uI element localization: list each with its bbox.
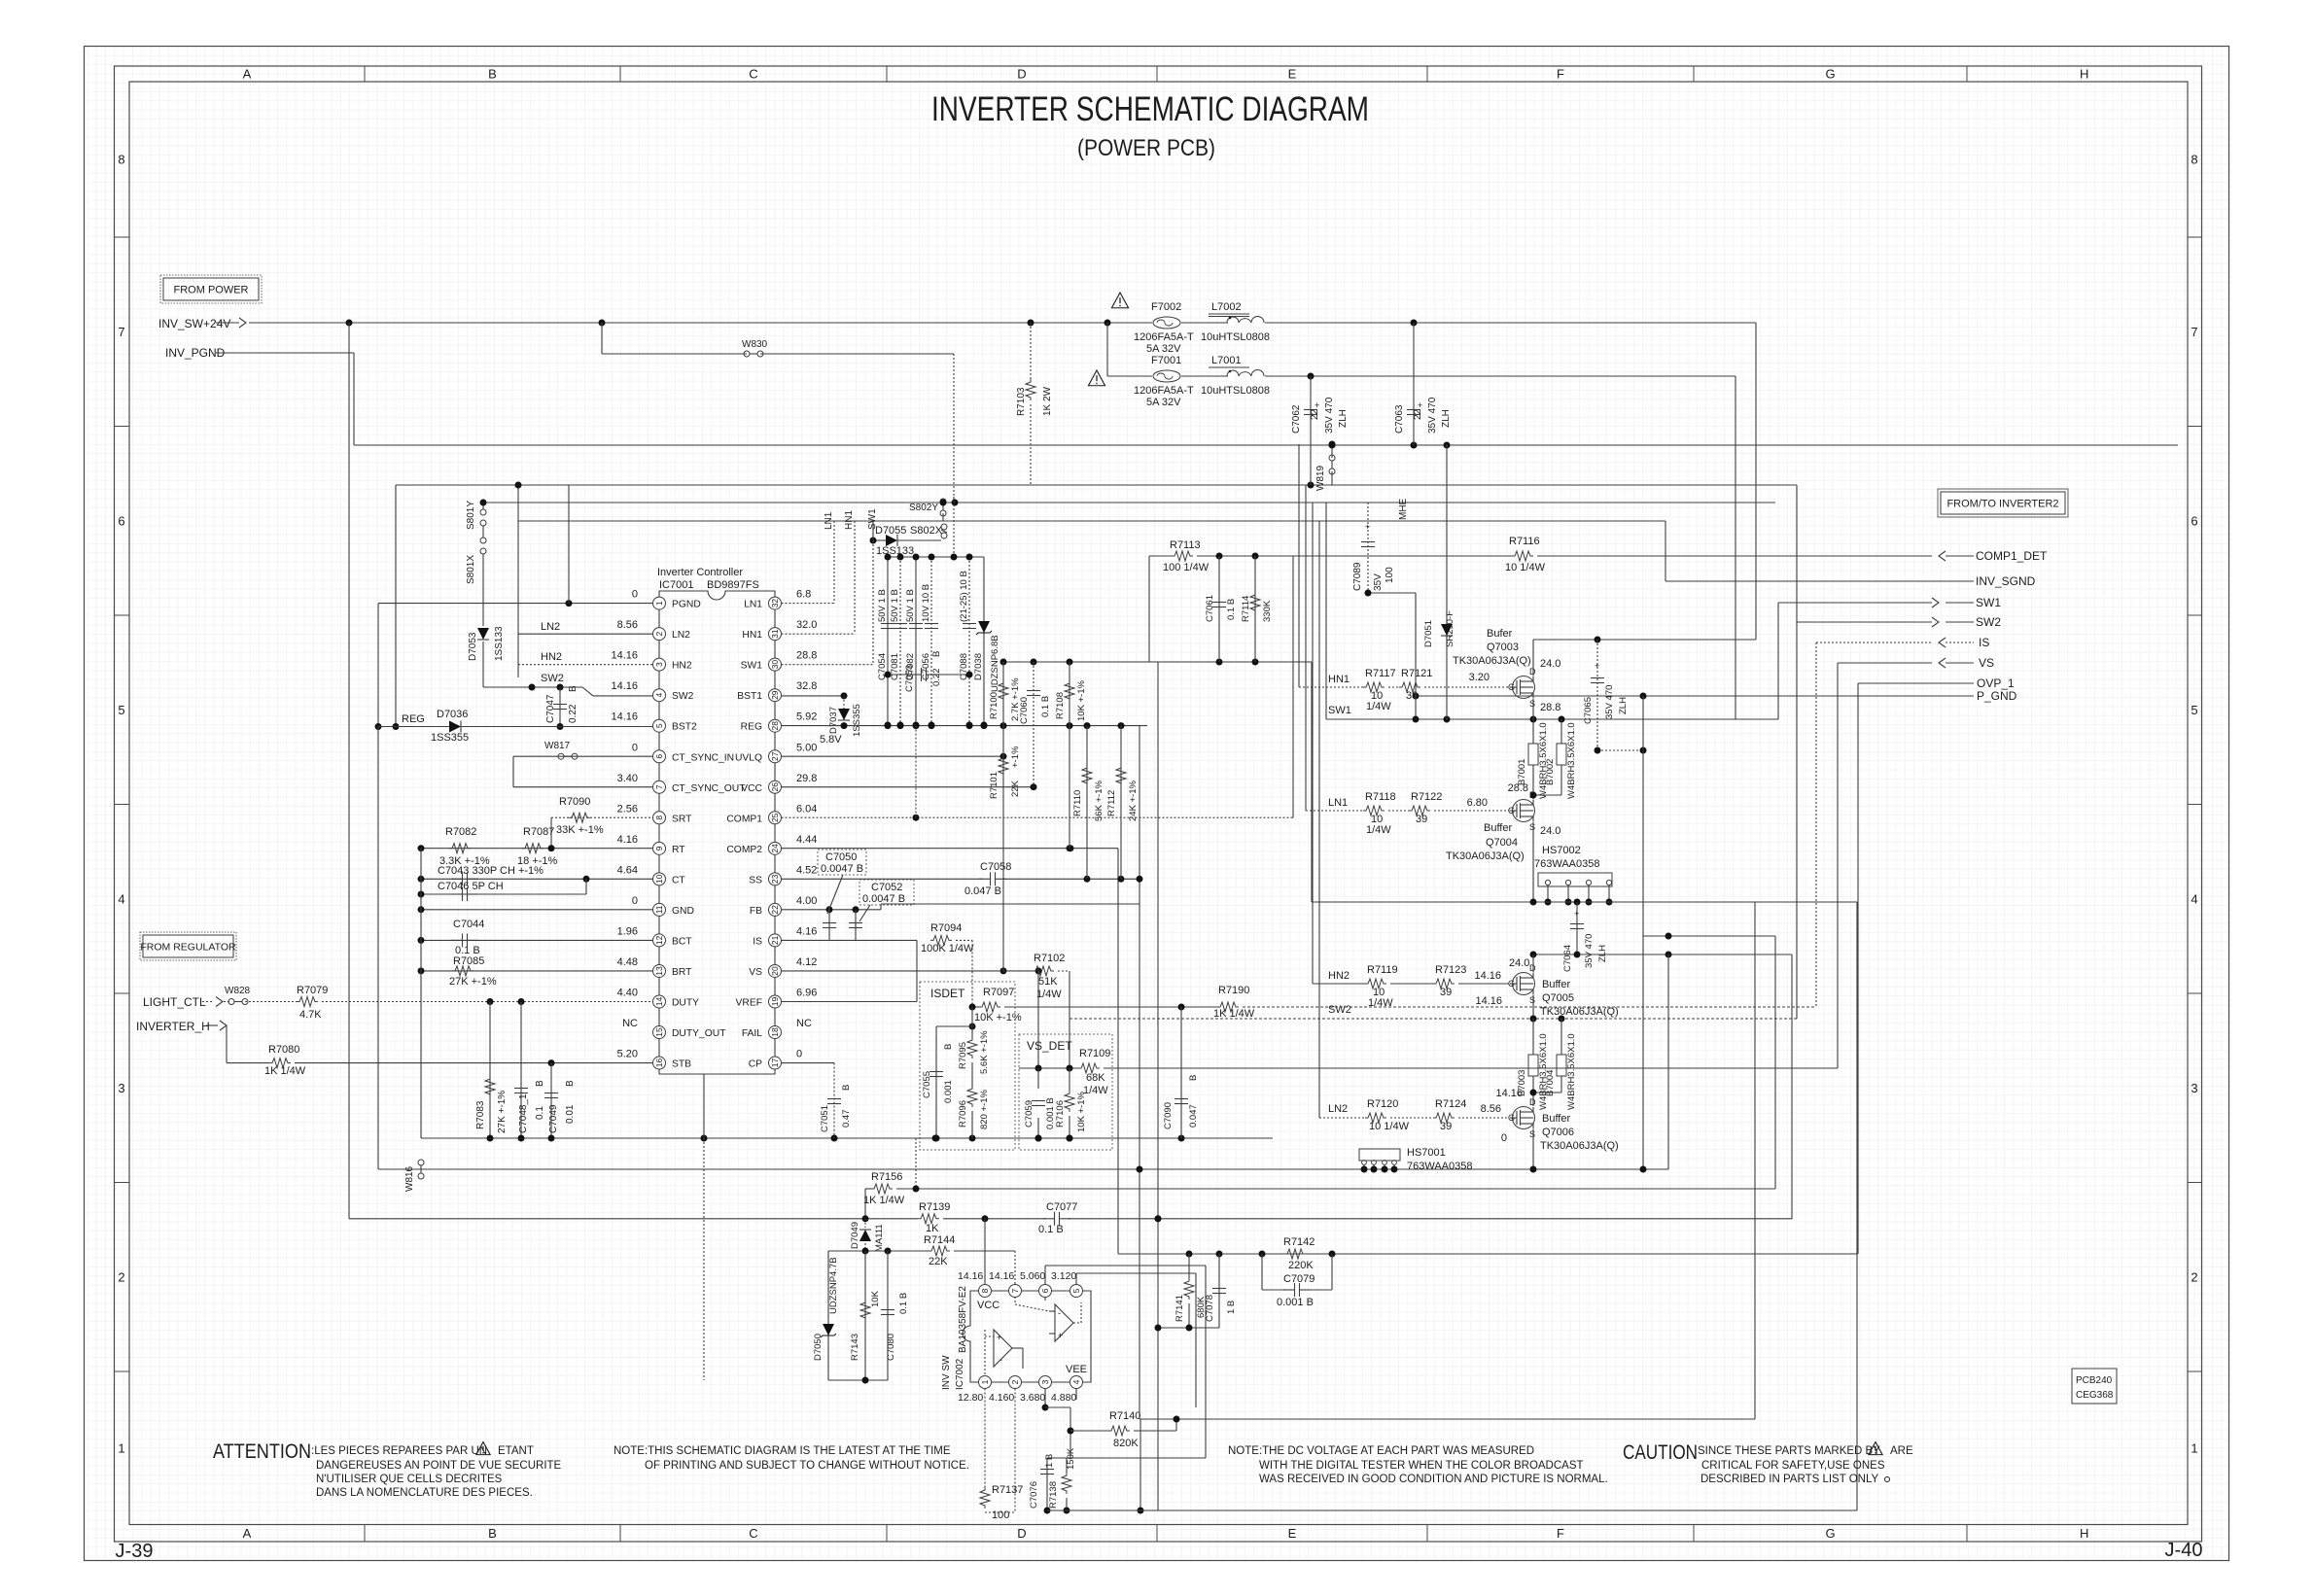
svg-text:COMP2: COMP2 (726, 845, 762, 855)
svg-text:LN1: LN1 (744, 600, 762, 610)
svg-text:3: 3 (1040, 1379, 1050, 1384)
svg-text:SINCE THESE PARTS MARKED BY: SINCE THESE PARTS MARKED BY (1698, 1445, 1880, 1457)
svg-text:14.16: 14.16 (1475, 995, 1502, 1007)
svg-text:56K +-1%: 56K +-1% (1094, 780, 1104, 821)
svg-text:39: 39 (1440, 987, 1452, 998)
svg-text:C7059: C7059 (1024, 1100, 1034, 1128)
svg-text:R7097: R7097 (983, 987, 1014, 998)
svg-text:R7096: R7096 (958, 1100, 968, 1128)
svg-text:A: A (243, 67, 252, 82)
svg-text:1.96: 1.96 (617, 925, 638, 937)
svg-text:C7062: C7062 (1291, 404, 1302, 434)
svg-text:D7049: D7049 (850, 1222, 860, 1249)
svg-text:C7065: C7065 (1583, 697, 1594, 724)
svg-text:DUTY_OUT: DUTY_OUT (672, 1028, 726, 1039)
svg-text:FAIL: FAIL (742, 1028, 762, 1039)
svg-text:TK30A06J3A(Q): TK30A06J3A(Q) (1540, 1140, 1619, 1152)
svg-text:15: 15 (654, 1027, 664, 1037)
svg-text:D7055: D7055 (875, 525, 906, 537)
svg-text:32.8: 32.8 (796, 680, 817, 692)
svg-text:CEG368: CEG368 (2076, 1390, 2114, 1401)
svg-text:6: 6 (1040, 1288, 1050, 1293)
svg-text:0.047 B: 0.047 B (964, 885, 1001, 897)
svg-text:VREF: VREF (736, 997, 762, 1008)
svg-text:50V 1 B: 50V 1 B (890, 589, 900, 622)
svg-text:G: G (1508, 979, 1515, 989)
svg-text:C7047: C7047 (545, 694, 556, 723)
svg-text:5.6K +-1%: 5.6K +-1% (979, 1030, 990, 1074)
svg-text:S: S (1529, 699, 1535, 709)
svg-text:35V 470: 35V 470 (1427, 397, 1438, 434)
svg-text:(POWER PCB): (POWER PCB) (1077, 135, 1215, 161)
svg-text:4.44: 4.44 (796, 834, 817, 846)
svg-text:SW1: SW1 (1976, 596, 2001, 609)
svg-text:1206FA5A-T: 1206FA5A-T (1134, 331, 1194, 343)
svg-text:C7081: C7081 (890, 653, 900, 680)
svg-text:SW2: SW2 (672, 691, 694, 702)
svg-text:B: B (931, 651, 942, 657)
svg-text:22: 22 (1413, 408, 1423, 420)
svg-text:C7076: C7076 (1029, 1481, 1039, 1509)
svg-text:R7139: R7139 (919, 1201, 950, 1213)
svg-text:R7112: R7112 (1106, 790, 1117, 816)
svg-text:1: 1 (980, 1379, 990, 1384)
svg-text:P_GND: P_GND (1977, 689, 2017, 703)
svg-text:W817: W817 (544, 741, 571, 751)
svg-text:5A 32V: 5A 32V (1146, 343, 1181, 355)
svg-text:FB: FB (750, 906, 762, 917)
svg-text:32.0: 32.0 (796, 619, 817, 631)
svg-text:10K: 10K (870, 1290, 881, 1307)
svg-text:IC7001: IC7001 (659, 579, 693, 591)
svg-text:HN2: HN2 (672, 661, 692, 672)
svg-text:NOTE:THE DC VOLTAGE AT EACH PA: NOTE:THE DC VOLTAGE AT EACH PART WAS MEA… (1228, 1445, 1534, 1457)
svg-text:R7143: R7143 (850, 1334, 860, 1361)
svg-text:COMP1: COMP1 (726, 814, 762, 824)
svg-text:14.16: 14.16 (1474, 970, 1501, 982)
svg-text:27K +-1%: 27K +-1% (497, 1091, 508, 1133)
svg-text:24.0: 24.0 (1509, 957, 1529, 969)
svg-text:51K: 51K (1038, 976, 1058, 988)
svg-text:BST1: BST1 (737, 691, 762, 702)
svg-text:10 1/4W: 10 1/4W (1505, 562, 1546, 573)
svg-text:B: B (841, 1085, 852, 1091)
svg-text:C7046 5P CH: C7046 5P CH (438, 881, 504, 892)
svg-text:6: 6 (654, 754, 664, 759)
svg-text:FROM POWER: FROM POWER (174, 285, 249, 296)
svg-text:L7002: L7002 (1211, 301, 1242, 313)
svg-text:BA10358FV-E2: BA10358FV-E2 (958, 1286, 968, 1353)
svg-text:10uHTSL0808: 10uHTSL0808 (1201, 385, 1270, 397)
svg-text:R7100: R7100 (989, 692, 999, 719)
svg-text:F7002: F7002 (1151, 301, 1181, 313)
svg-text:R7117: R7117 (1365, 668, 1396, 679)
svg-text:B: B (565, 1080, 576, 1087)
svg-text:+: + (1595, 661, 1599, 671)
svg-text:CT_SYNC_IN: CT_SYNC_IN (672, 752, 734, 763)
svg-text:D7053: D7053 (468, 632, 478, 661)
svg-text:22K: 22K (1010, 780, 1021, 797)
svg-text:25: 25 (770, 813, 780, 822)
svg-text:0.1 B: 0.1 B (898, 1293, 909, 1314)
svg-text:11: 11 (654, 905, 664, 914)
svg-text:BD9897FS: BD9897FS (707, 579, 759, 591)
svg-text:C7064: C7064 (1562, 945, 1573, 972)
svg-text:5: 5 (118, 703, 124, 717)
svg-text:C7044: C7044 (453, 919, 484, 930)
svg-text:6: 6 (118, 513, 124, 528)
svg-text:+: + (1365, 522, 1370, 532)
svg-text:MHE: MHE (1398, 498, 1409, 520)
svg-text:0.0047 B: 0.0047 B (862, 893, 905, 905)
svg-text:+: + (1418, 400, 1422, 410)
svg-text:7: 7 (1010, 1288, 1020, 1293)
svg-text:VS: VS (749, 967, 762, 978)
svg-text:22K: 22K (929, 1256, 948, 1267)
svg-text:5.060: 5.060 (1020, 1270, 1045, 1282)
svg-text:8: 8 (980, 1288, 990, 1293)
svg-text:+: + (1574, 909, 1579, 919)
svg-text:DANS LA NOMENCLATURE DES PIECE: DANS LA NOMENCLATURE DES PIECES. (316, 1487, 533, 1499)
svg-text:R7094: R7094 (930, 922, 962, 934)
svg-text:4.40: 4.40 (617, 987, 638, 998)
svg-text:1K 2W: 1K 2W (1042, 386, 1053, 416)
svg-text:SW1: SW1 (741, 661, 763, 672)
svg-text:B7002: B7002 (1545, 759, 1556, 785)
svg-text:28.8: 28.8 (796, 650, 817, 662)
svg-text:B: B (535, 1080, 545, 1087)
svg-text:24.0: 24.0 (1540, 825, 1560, 837)
svg-text:LN1: LN1 (1328, 797, 1348, 809)
svg-text:Q7006: Q7006 (1542, 1127, 1574, 1138)
svg-text:ZLH: ZLH (1618, 697, 1629, 714)
svg-text:820 +-1%: 820 +-1% (979, 1090, 990, 1129)
svg-text:R7123: R7123 (1435, 964, 1466, 976)
svg-text:C7077: C7077 (1046, 1201, 1077, 1213)
svg-text:20: 20 (770, 966, 780, 976)
svg-text:Q7003: Q7003 (1487, 642, 1519, 653)
svg-text:D: D (1529, 1097, 1536, 1107)
svg-text:1K: 1K (926, 1223, 939, 1234)
svg-text:VCC: VCC (977, 1300, 999, 1311)
svg-text:1: 1 (654, 601, 664, 606)
svg-text:VCC: VCC (741, 783, 762, 794)
svg-text:+-1%: +-1% (1010, 746, 1021, 768)
svg-text:LN1: LN1 (824, 511, 834, 530)
svg-text:IS: IS (1979, 636, 1989, 649)
svg-text:22: 22 (1310, 408, 1320, 420)
svg-text:WAS RECEIVED IN GOOD CONDITION: WAS RECEIVED IN GOOD CONDITION AND PICTU… (1259, 1474, 1608, 1485)
svg-text:23: 23 (770, 874, 780, 884)
svg-text:C7043 330P CH +-1%: C7043 330P CH +-1% (438, 865, 543, 877)
svg-text:R7108: R7108 (1055, 692, 1066, 719)
svg-text:1 B: 1 B (1044, 1454, 1055, 1468)
svg-text:13: 13 (654, 966, 664, 976)
svg-text:5.00: 5.00 (796, 742, 817, 753)
svg-text:2: 2 (654, 631, 664, 636)
svg-text:R7087: R7087 (523, 826, 554, 838)
svg-text:N'UTILISER QUE CELLS DECRITES: N'UTILISER QUE CELLS DECRITES (316, 1474, 503, 1485)
svg-text:C7050: C7050 (825, 851, 857, 863)
svg-text:-: - (1058, 1308, 1061, 1318)
svg-text:763WAA0358: 763WAA0358 (1407, 1161, 1472, 1172)
svg-text:HS7002: HS7002 (1542, 845, 1581, 856)
svg-text:CT: CT (672, 875, 685, 885)
svg-text:10K +-1%: 10K +-1% (1076, 679, 1087, 721)
svg-text:+: + (1315, 400, 1319, 410)
svg-text:SS: SS (749, 875, 762, 885)
svg-text:31: 31 (770, 629, 780, 639)
svg-text:Buffer: Buffer (1542, 1113, 1570, 1125)
svg-text:J-40: J-40 (2165, 1540, 2203, 1561)
svg-text:8.56: 8.56 (617, 619, 638, 631)
svg-text:B7004: B7004 (1545, 1070, 1556, 1096)
svg-text:0.001 B: 0.001 B (1277, 1297, 1314, 1308)
svg-text:F: F (1557, 67, 1564, 82)
svg-text:33K +-1%: 33K +-1% (556, 824, 604, 836)
svg-text:R7156: R7156 (871, 1171, 902, 1183)
svg-text:ZLH: ZLH (1597, 945, 1608, 962)
svg-text:14.16: 14.16 (611, 650, 638, 662)
svg-text:R7144: R7144 (924, 1234, 955, 1246)
svg-text:0.047: 0.047 (1188, 1104, 1199, 1128)
svg-text:B: B (488, 67, 497, 82)
svg-text:G: G (1825, 67, 1835, 82)
svg-text:0: 0 (796, 1049, 802, 1060)
svg-text:6.04: 6.04 (796, 803, 817, 815)
svg-text:B7001: B7001 (1517, 759, 1527, 785)
svg-text:24: 24 (770, 844, 780, 853)
svg-text:22: 22 (770, 905, 780, 915)
svg-text:B: B (568, 685, 578, 692)
svg-text:IS: IS (753, 936, 762, 947)
svg-text:39: 39 (1440, 1121, 1452, 1132)
svg-text:W819: W819 (1315, 465, 1326, 491)
svg-text:150K: 150K (1066, 1447, 1076, 1470)
svg-text:3.680: 3.680 (1020, 1392, 1045, 1404)
svg-text:4.16: 4.16 (796, 925, 817, 937)
svg-text:W816: W816 (404, 1165, 415, 1192)
svg-text:S801Y: S801Y (466, 501, 476, 530)
svg-text:HN1: HN1 (1328, 674, 1350, 685)
svg-text:14.16: 14.16 (611, 680, 638, 692)
svg-text:C7055: C7055 (922, 1071, 932, 1098)
svg-text:C7078: C7078 (1205, 1295, 1215, 1322)
svg-text:16: 16 (654, 1058, 664, 1068)
svg-text:C7052: C7052 (871, 882, 902, 893)
svg-text:TK30A06J3A(Q): TK30A06J3A(Q) (1453, 655, 1531, 667)
svg-text:REG: REG (741, 722, 762, 733)
svg-text:1SS355: 1SS355 (852, 704, 862, 737)
svg-text:MA111: MA111 (874, 1224, 885, 1252)
svg-text:-: - (999, 1355, 1002, 1365)
svg-text:B: B (1188, 1075, 1199, 1081)
svg-text:2: 2 (2191, 1269, 2197, 1284)
svg-text:1K 1/4W: 1K 1/4W (863, 1195, 905, 1206)
svg-text:VS: VS (1979, 656, 1994, 670)
svg-text:+: + (1058, 1331, 1063, 1340)
svg-text:OF PRINTING AND SUBJECT TO CHA: OF PRINTING AND SUBJECT TO CHANGE WITHOU… (645, 1460, 969, 1472)
svg-text:CAUTION: CAUTION (1623, 1441, 1698, 1464)
svg-text:R7141: R7141 (1175, 1295, 1185, 1322)
svg-text:3.120: 3.120 (1051, 1270, 1076, 1282)
svg-text:R7106: R7106 (1055, 1100, 1066, 1128)
svg-text:D7051: D7051 (1423, 620, 1434, 647)
svg-text:R7140: R7140 (1109, 1410, 1140, 1422)
svg-text:D7037: D7037 (828, 707, 839, 734)
svg-text:W4BRH3.5X6X1.0: W4BRH3.5X6X1.0 (1566, 1033, 1577, 1110)
svg-text:100 1/4W: 100 1/4W (1163, 562, 1210, 573)
svg-text:8: 8 (654, 815, 664, 820)
svg-text:0.01: 0.01 (565, 1104, 576, 1124)
svg-text:D: D (1017, 1526, 1026, 1541)
svg-text:ZLH: ZLH (1338, 409, 1349, 428)
svg-text:R7118: R7118 (1365, 791, 1396, 803)
svg-text:Q7004: Q7004 (1486, 837, 1518, 849)
svg-text:4.7K: 4.7K (299, 1009, 322, 1021)
svg-text:C7063: C7063 (1394, 404, 1405, 434)
svg-text:100: 100 (1385, 567, 1395, 583)
svg-text:7: 7 (118, 325, 124, 339)
svg-text:1K 1/4W: 1K 1/4W (1213, 1008, 1255, 1020)
svg-text:Inverter Controller: Inverter Controller (657, 567, 743, 578)
svg-text:3.20: 3.20 (1469, 672, 1490, 683)
svg-text:0: 0 (632, 742, 638, 753)
svg-text:820K: 820K (1113, 1438, 1139, 1449)
svg-text:5.8V: 5.8V (820, 734, 842, 746)
svg-text:D7050: D7050 (813, 1334, 824, 1361)
svg-text:8: 8 (2191, 153, 2197, 167)
svg-text:TK30A06J3A(Q): TK30A06J3A(Q) (1540, 1006, 1619, 1018)
svg-text:27: 27 (770, 751, 780, 761)
svg-text:27K +-1%: 27K +-1% (449, 976, 497, 988)
svg-text:SW2: SW2 (1976, 615, 2001, 629)
svg-text:HS7001: HS7001 (1407, 1147, 1446, 1159)
svg-text:F: F (1557, 1526, 1564, 1541)
svg-text:LIGHT_CTL: LIGHT_CTL (143, 995, 206, 1009)
svg-text:C: C (749, 1526, 757, 1541)
svg-text:1SS133: 1SS133 (876, 545, 914, 557)
svg-text:R7090: R7090 (559, 796, 590, 808)
svg-text:4.52: 4.52 (796, 864, 817, 876)
svg-text:12: 12 (654, 935, 664, 945)
svg-text:LN2: LN2 (672, 630, 690, 641)
svg-text:ZLH: ZLH (1441, 409, 1452, 428)
svg-text:S: S (1529, 822, 1535, 832)
svg-text:(21-25) 10 B: (21-25) 10 B (959, 571, 969, 622)
svg-text:C7058: C7058 (980, 861, 1011, 873)
svg-text:GND: GND (672, 906, 694, 917)
svg-text:G: G (1508, 682, 1515, 692)
svg-text:H: H (2080, 1526, 2088, 1541)
svg-text:D: D (1017, 67, 1026, 82)
svg-text:35V: 35V (1373, 573, 1384, 591)
svg-text:0.1 B: 0.1 B (1226, 599, 1237, 620)
svg-text:Buffer: Buffer (1484, 822, 1512, 834)
svg-text:10uHTSL0808: 10uHTSL0808 (1201, 331, 1270, 343)
svg-text:+: + (997, 1333, 1001, 1342)
svg-text:BRT: BRT (672, 967, 692, 978)
svg-text:R7121: R7121 (1401, 668, 1432, 679)
svg-text:R7120: R7120 (1367, 1098, 1398, 1110)
svg-text:4.16: 4.16 (617, 834, 638, 846)
svg-text:10K +-1%: 10K +-1% (1076, 1091, 1087, 1132)
svg-text:Q7005: Q7005 (1542, 992, 1574, 1004)
svg-text:14.16: 14.16 (611, 711, 638, 723)
svg-text:1206FA5A-T: 1206FA5A-T (1134, 385, 1194, 397)
svg-text:1SS355: 1SS355 (431, 732, 469, 744)
svg-text:1/4W: 1/4W (1366, 824, 1391, 836)
svg-text:SW2: SW2 (1328, 1004, 1351, 1016)
svg-text:ETANT: ETANT (498, 1445, 534, 1457)
svg-text:C7051: C7051 (820, 1105, 830, 1132)
svg-text:14.16: 14.16 (958, 1270, 983, 1282)
svg-text:3: 3 (118, 1081, 124, 1095)
svg-text:4.880: 4.880 (1051, 1392, 1076, 1404)
svg-text:763WAA0358: 763WAA0358 (1534, 858, 1599, 870)
svg-text:1: 1 (2191, 1440, 2197, 1455)
svg-text:Bufer: Bufer (1487, 628, 1513, 640)
svg-text:4.00: 4.00 (796, 895, 817, 907)
svg-text::LES PIECES REPAREES PAR UN: :LES PIECES REPAREES PAR UN (311, 1445, 487, 1457)
svg-text:14.16: 14.16 (989, 1270, 1014, 1282)
svg-text:1/4W: 1/4W (1366, 701, 1391, 712)
svg-text:G: G (1825, 1526, 1835, 1541)
svg-text:ARE: ARE (1890, 1445, 1913, 1457)
svg-text:1/4W: 1/4W (1036, 989, 1062, 1000)
svg-text:C7090: C7090 (1163, 1102, 1174, 1129)
svg-text:VEE: VEE (1066, 1364, 1087, 1375)
svg-text:R7079: R7079 (297, 985, 328, 996)
svg-text:330K: 330K (1262, 600, 1273, 622)
svg-text:R7103: R7103 (1016, 387, 1027, 416)
svg-text:32: 32 (770, 599, 780, 608)
svg-text:SRT: SRT (672, 814, 692, 824)
svg-text:C7060: C7060 (1019, 697, 1030, 724)
svg-text:S802Y: S802Y (909, 503, 938, 513)
svg-text:B: B (943, 1044, 954, 1050)
svg-text:WITH THE DIGITAL TESTER WHEN T: WITH THE DIGITAL TESTER WHEN THE COLOR B… (1259, 1460, 1584, 1472)
svg-text:D7038: D7038 (973, 653, 984, 680)
svg-text:10V 10 B: 10V 10 B (921, 584, 931, 622)
svg-text:29.8: 29.8 (796, 773, 817, 784)
svg-text:1: 1 (118, 1440, 124, 1455)
svg-text:C: C (749, 67, 757, 82)
svg-text:NOTE:THIS SCHEMATIC DIAGRAM IS: NOTE:THIS SCHEMATIC DIAGRAM IS THE LATES… (614, 1445, 951, 1457)
svg-text:SW2: SW2 (541, 673, 564, 684)
svg-text:C7061: C7061 (1205, 595, 1215, 622)
svg-text:PGND: PGND (672, 600, 701, 610)
svg-text:C7080: C7080 (886, 1334, 896, 1361)
svg-text:1K 1/4W: 1K 1/4W (264, 1065, 306, 1077)
svg-text:FROM REGULATOR: FROM REGULATOR (140, 942, 236, 954)
svg-text:DESCRIBED IN PARTS LIST ONLY: DESCRIBED IN PARTS LIST ONLY (1700, 1474, 1879, 1485)
svg-text:0: 0 (1501, 1132, 1507, 1144)
svg-text:0.22: 0.22 (931, 669, 942, 687)
svg-text:W828: W828 (225, 986, 251, 996)
svg-text:S: S (1529, 1129, 1535, 1139)
svg-text:R7080: R7080 (268, 1044, 299, 1056)
svg-text:0.0047 B: 0.0047 B (821, 863, 863, 875)
svg-text:C7053: C7053 (904, 665, 915, 692)
svg-text:4.160: 4.160 (989, 1392, 1014, 1404)
svg-text:0.1 B: 0.1 B (1038, 1224, 1064, 1235)
svg-text:W830: W830 (742, 339, 768, 350)
svg-text:TK30A06J3A(Q): TK30A06J3A(Q) (1446, 850, 1525, 862)
svg-text:NC: NC (622, 1018, 638, 1029)
svg-text:100K 1/4W: 100K 1/4W (921, 943, 974, 954)
svg-text:0.1: 0.1 (535, 1106, 545, 1120)
